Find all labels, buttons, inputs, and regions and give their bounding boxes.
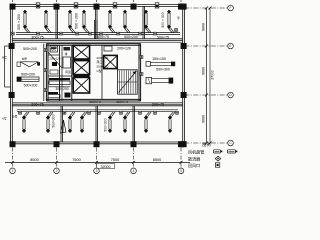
damper box	[11, 32, 14, 35]
fan coil wedge symbol	[17, 62, 40, 67]
damper box	[154, 111, 157, 114]
damper box	[98, 111, 101, 114]
horizontal duct run with diffuser	[146, 77, 173, 83]
svg-text:7500: 7500	[111, 158, 119, 162]
supply branch with diffusers	[144, 10, 151, 33]
column	[9, 43, 15, 49]
svg-text:B号: B号	[22, 56, 27, 61]
svg-text:500 × 200: 500 × 200	[17, 14, 21, 30]
column	[181, 92, 187, 98]
svg-text:500×200: 500×200	[124, 35, 138, 39]
svg-text:500×75: 500×75	[97, 35, 109, 39]
grid line	[185, 45, 228, 47]
svg-text:图例: 图例	[202, 141, 210, 148]
grid bubble D	[228, 92, 234, 98]
elevator shaft	[73, 77, 89, 93]
lower corridor wall	[13, 104, 183, 106]
core room box	[63, 57, 71, 68]
outer wall right	[183, 5, 185, 144]
svg-text:27000: 27000	[211, 70, 215, 80]
elevator shaft	[104, 55, 118, 68]
svg-text:2: 2	[56, 169, 58, 173]
small column	[74, 3, 78, 8]
legend symbol diffuser	[215, 156, 221, 161]
grid line stub	[180, 0, 182, 5]
svg-text:8500: 8500	[153, 158, 161, 162]
left facade bay line	[4, 46, 6, 87]
damper box	[139, 111, 142, 114]
svg-text:500×200: 500×200	[24, 84, 38, 88]
supply branch with diffusers	[108, 10, 115, 33]
main supply duct bottom band	[17, 110, 178, 112]
svg-text:回风口: 回风口	[188, 163, 200, 168]
door swing line	[48, 52, 62, 68]
column	[10, 4, 16, 10]
svg-text:300×75: 300×75	[152, 103, 164, 107]
grid bubble 3	[94, 168, 100, 174]
damper box	[37, 111, 40, 114]
damper box	[176, 111, 179, 114]
damper box	[140, 56, 143, 59]
supply branch with diffusers	[46, 112, 53, 133]
corridor side wall	[43, 44, 45, 101]
overall dim text 32000	[97, 164, 115, 169]
partition wall	[96, 6, 97, 38]
dim tick	[205, 142, 208, 145]
svg-text:8500: 8500	[30, 158, 38, 162]
column	[178, 141, 184, 147]
column	[54, 4, 60, 10]
stair landing line	[118, 81, 138, 83]
grid extension line	[133, 148, 135, 167]
grid bubble 1	[10, 168, 16, 174]
svg-text:500 × 200: 500 × 200	[75, 13, 79, 29]
column	[181, 4, 187, 10]
supply branch with diffusers	[68, 112, 75, 133]
core wall	[59, 45, 61, 101]
core wall	[101, 45, 103, 100]
supply branch with diffusers	[144, 112, 151, 133]
core wall	[61, 45, 63, 101]
svg-text:200×130: 200×130	[97, 65, 109, 69]
grid bubble E	[228, 43, 234, 49]
svg-text:4: 4	[133, 169, 135, 173]
fan coil body	[49, 81, 70, 84]
stair flight	[118, 70, 138, 94]
dim tick	[209, 7, 212, 10]
shaft separator wall	[73, 59, 89, 61]
core wall bottom	[46, 99, 140, 101]
grid bubble 5	[178, 168, 184, 174]
core wall	[48, 54, 60, 56]
damper box	[19, 111, 22, 114]
dimension line bottom	[5, 162, 190, 164]
svg-text:风机: 风机	[50, 48, 56, 52]
equipment box	[48, 95, 60, 98]
legend symbol fan coil	[214, 150, 221, 153]
svg-text:500×300: 500×300	[104, 118, 108, 131]
svg-text:6号: 6号	[2, 117, 7, 121]
supply branch with diffusers	[44, 10, 51, 33]
small column	[113, 3, 117, 8]
svg-text:500×75: 500×75	[89, 100, 101, 104]
equipment box	[50, 70, 58, 74]
equipment line	[48, 86, 70, 88]
svg-text:500×200: 500×200	[21, 72, 35, 76]
column	[131, 4, 137, 10]
column	[54, 141, 60, 147]
elevator shaft	[73, 45, 89, 59]
horizontal duct run with diffuser	[146, 62, 175, 67]
corridor duct line	[13, 102, 183, 104]
column	[10, 141, 16, 147]
damper box	[44, 69, 47, 72]
damper box	[63, 111, 66, 114]
partition wall	[143, 6, 144, 38]
machine room box	[50, 46, 58, 52]
svg-text:9000: 9000	[202, 115, 206, 123]
equipment mark	[48, 92, 58, 94]
column	[181, 141, 187, 147]
grid extension line	[56, 148, 58, 167]
outer wall left	[11, 5, 13, 144]
outer wall bottom	[11, 142, 185, 144]
supply branch with diffusers	[80, 112, 87, 133]
damper box	[89, 32, 92, 35]
svg-text:C型: C型	[97, 68, 102, 73]
svg-text:5: 5	[180, 169, 182, 173]
small column	[155, 3, 159, 8]
svg-text:9000: 9000	[202, 23, 206, 31]
svg-text:B号: B号	[12, 114, 17, 119]
dim tick	[205, 45, 208, 48]
fan coil dark bar	[49, 78, 70, 80]
damper box	[140, 73, 143, 76]
core wall left	[46, 44, 48, 101]
damper box	[44, 49, 47, 52]
partition wall	[56, 6, 57, 38]
column	[181, 43, 187, 49]
grid bubble F	[228, 5, 234, 11]
supply branch with diffusers	[68, 10, 75, 33]
grid line stub	[12, 0, 14, 5]
damper box	[37, 32, 40, 35]
supply branch with diffusers	[123, 112, 130, 133]
svg-text:32000: 32000	[101, 165, 111, 169]
damper box	[154, 32, 157, 35]
damper box	[175, 29, 178, 32]
svg-text:风机盘管: 风机盘管	[188, 149, 204, 155]
dim tick	[95, 161, 98, 164]
column	[131, 141, 137, 147]
grid extension line	[180, 148, 182, 167]
damper box	[44, 89, 47, 92]
supply branch with diffusers	[123, 10, 130, 33]
grid line	[185, 142, 228, 144]
supply branch with diffusers	[168, 112, 175, 133]
grid line	[185, 94, 228, 96]
fan coil duct symbol	[17, 77, 39, 81]
svg-text:300×75: 300×75	[31, 103, 43, 107]
supply branch with diffusers	[108, 112, 115, 133]
svg-text:300×75: 300×75	[31, 35, 43, 39]
grid bubble 2	[54, 168, 60, 174]
svg-text:B号: B号	[2, 56, 7, 60]
svg-text:200×120: 200×120	[50, 57, 61, 61]
svg-text:3: 3	[96, 169, 98, 173]
dark equipment	[65, 93, 71, 98]
svg-text:300×200: 300×200	[55, 87, 68, 91]
svg-text:E: E	[229, 44, 231, 48]
bay end top	[5, 45, 11, 47]
svg-text:1: 1	[12, 169, 14, 173]
overall dim line right	[209, 8, 211, 143]
supply branch with diffusers	[23, 10, 30, 33]
dimension line right	[206, 8, 208, 143]
upper corridor wall	[13, 39, 183, 41]
wall diffuser fan	[61, 120, 67, 133]
core wall	[71, 45, 73, 101]
svg-text:500×300: 500×300	[156, 68, 170, 72]
main supply duct top band	[16, 33, 180, 35]
svg-text:500×200: 500×200	[23, 47, 37, 51]
column	[94, 141, 100, 147]
grid line stub	[56, 0, 58, 5]
core box	[104, 46, 112, 51]
damper box	[139, 32, 142, 35]
partition wall	[133, 106, 134, 142]
partition wall	[61, 106, 62, 142]
dim tick	[180, 161, 183, 164]
grid bubble 4	[131, 168, 137, 174]
duct riser	[95, 20, 97, 39]
damper box	[60, 32, 63, 35]
svg-text:4B: 4B	[177, 16, 181, 19]
core wall top	[46, 44, 140, 46]
damper box	[88, 111, 91, 114]
svg-text:风口: 风口	[97, 60, 103, 64]
legend symbol return grille	[215, 163, 219, 167]
damper box	[76, 32, 79, 35]
dim tick	[209, 142, 212, 145]
svg-text:200×120: 200×120	[117, 47, 131, 51]
partition wall	[96, 106, 97, 142]
svg-text:500×75: 500×75	[157, 35, 169, 39]
corridor duct line	[13, 41, 183, 43]
grid extension line	[96, 148, 98, 167]
svg-text:7500: 7500	[72, 158, 80, 162]
column	[178, 4, 184, 10]
shaft separator wall	[73, 74, 89, 77]
equipment mark	[51, 47, 57, 49]
damper box	[117, 32, 120, 35]
column	[9, 92, 15, 98]
supply branch with diffusers	[82, 10, 89, 33]
supply branch with diffusers	[22, 112, 29, 133]
dark equipment	[52, 62, 57, 66]
svg-text:F: F	[230, 6, 232, 10]
grid line stub	[133, 0, 135, 5]
svg-text:150×150: 150×150	[152, 57, 166, 61]
dim tick	[132, 161, 135, 164]
svg-text:500 × 300: 500 × 300	[161, 12, 165, 27]
grid line	[185, 7, 228, 9]
dim tick	[11, 161, 14, 164]
core wall right	[139, 44, 141, 101]
small column	[36, 3, 40, 8]
damper box	[100, 32, 103, 35]
dim tick	[55, 161, 58, 164]
dim tick	[205, 94, 208, 97]
svg-text:500×75: 500×75	[116, 100, 128, 104]
grid extension line	[12, 148, 14, 167]
grid bubble C	[228, 140, 234, 146]
core wall	[48, 75, 72, 77]
svg-text:500×300: 500×300	[52, 114, 56, 127]
dark equipment	[64, 47, 71, 51]
outer wall top	[11, 5, 185, 7]
bay end bottom	[5, 86, 11, 88]
grid line stub	[96, 0, 98, 5]
column	[94, 4, 100, 10]
supply branch with diffusers	[167, 10, 174, 33]
svg-text:风道: 风道	[65, 70, 71, 74]
damper box	[120, 111, 123, 114]
svg-text:9000: 9000	[202, 67, 206, 75]
svg-text:排: 排	[65, 52, 68, 56]
dim tick	[205, 7, 208, 10]
elevator shaft	[73, 61, 89, 75]
svg-text:散流器: 散流器	[188, 155, 200, 161]
